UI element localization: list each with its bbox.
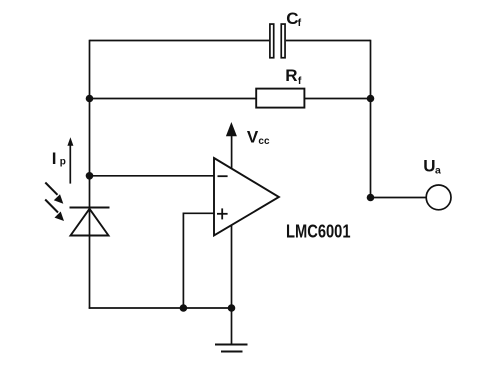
output terminal Ua circle <box>426 185 451 210</box>
wire: top feedback wire left segment (left rail to Cf) <box>90 40 270 42</box>
ground <box>215 345 248 352</box>
wire: bottom ground wire <box>89 307 232 309</box>
photodiode D1 cathode bar <box>70 207 110 209</box>
label Cf <box>286 9 301 29</box>
wire: Rf feedback wire right segment <box>305 98 371 100</box>
label Ua <box>423 156 441 176</box>
svg-text:a: a <box>435 164 441 176</box>
op-amp non-inverting input plus sign <box>217 208 228 219</box>
wire: Rf feedback wire left segment <box>90 98 257 100</box>
wire: right rail vertical <box>370 40 372 198</box>
svg-text:f: f <box>298 75 302 87</box>
node: junction bottom wire / non-inverting branch <box>180 304 188 312</box>
svg-text:LMC6001: LMC6001 <box>286 221 351 242</box>
wire: top feedback wire right segment (Cf to right rail) <box>286 40 371 42</box>
wire: output wire to terminal <box>371 197 427 199</box>
svg-text:I: I <box>52 149 57 168</box>
svg-text:V: V <box>247 127 259 146</box>
label LMC6001 <box>286 221 351 242</box>
svg-text:p: p <box>60 157 66 168</box>
svg-text:cc: cc <box>258 136 270 147</box>
svg-text:U: U <box>423 156 435 175</box>
node: junction bottom wire / ground stem <box>228 304 236 312</box>
Vcc supply arrow <box>226 122 237 169</box>
photodiode D1 triangle <box>71 209 109 236</box>
wire: left rail vertical (top wire down to bottom wire, through photodiode) <box>89 40 91 309</box>
light arrow 2 <box>45 200 64 222</box>
op-amp U1 triangle <box>214 158 279 236</box>
svg-text:R: R <box>285 66 297 85</box>
wire: non-inverting input wire <box>183 213 214 308</box>
node: junction right rail / output wire <box>367 194 375 202</box>
node: junction right rail / Rf wire <box>367 95 375 103</box>
wire: op-amp negative supply pin down <box>231 226 233 309</box>
wire: ground stem <box>231 308 233 345</box>
node: junction left rail / Rf wire <box>86 95 94 103</box>
label Ip <box>52 149 66 168</box>
resistor R1 (Rf) <box>256 89 304 108</box>
node: junction left rail / inverting input <box>86 172 94 180</box>
capacitor C1 (Cf plates) <box>270 24 285 58</box>
op-amp inverting input minus sign <box>218 175 228 177</box>
Ip current arrow <box>67 137 73 183</box>
wire: inverting input wire <box>90 175 215 177</box>
label Vcc <box>247 127 270 147</box>
light arrow 1 <box>45 183 63 204</box>
svg-text:f: f <box>298 17 302 29</box>
label Rf <box>285 66 302 87</box>
